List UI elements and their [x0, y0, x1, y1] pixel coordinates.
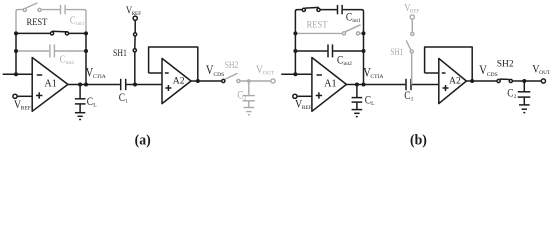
- wire: left feedback vertical gray top part: [16, 10, 23, 34]
- wire: A2 inverting input stub: [149, 72, 162, 74]
- svg-text:CDS: CDS: [213, 72, 224, 78]
- switch SH2 (open, gray side): [222, 73, 240, 82]
- node: SH1 bottom junction dot: [133, 83, 137, 87]
- ground (under CL): [75, 113, 85, 120]
- wire: left feedback vertical (black part): [15, 33, 17, 74]
- capacitor Cint1 (gray): [41, 5, 86, 34]
- svg-text:REF: REF: [410, 8, 420, 14]
- node: C2 tap dot (b): [522, 79, 526, 83]
- node: Cint2 right dot: [84, 49, 88, 53]
- svg-text:SH1: SH1: [113, 47, 127, 58]
- label VREF (top, over SH1): [126, 5, 141, 17]
- ground (under C2, gray): [244, 108, 255, 115]
- label SH2 (black) (b): [497, 60, 514, 70]
- wire: VCTIA vertical (black): [85, 33, 87, 84]
- op-amp A1 (b): [312, 58, 347, 112]
- caption (b): [410, 132, 427, 149]
- node: Cint2 left dot: [14, 49, 18, 53]
- label C1 (b): [404, 90, 413, 102]
- node: Cint2 right dot (b): [362, 49, 366, 53]
- switch SH2 (closed, black) (b): [497, 79, 541, 83]
- label VOUT (b): [532, 63, 550, 76]
- node: A2 output dot: [196, 79, 200, 83]
- node: REST branch right dot (b): [362, 31, 366, 35]
- wire: input stub to A1 inverting input (b): [281, 73, 312, 75]
- node: A1 input junction dot (b): [293, 72, 297, 76]
- svg-text:REST: REST: [27, 17, 48, 28]
- svg-text:1: 1: [411, 97, 414, 103]
- node: REST branch right dot: [84, 31, 88, 35]
- capacitor C1 (b): [406, 79, 411, 90]
- capacitor C1: [121, 79, 126, 90]
- wire: C1 to A2 + input (b): [412, 84, 439, 86]
- label Cint1 (black) (b): [346, 12, 361, 24]
- svg-text:2: 2: [514, 94, 517, 100]
- node: A2 output dot (b): [470, 79, 474, 83]
- wire: left feedback vertical (b): [295, 10, 302, 75]
- switch SH1 (closed, black): [133, 20, 137, 84]
- wire: A2 inverting input stub (b): [425, 72, 439, 74]
- switch REST (closed, black): [16, 31, 86, 35]
- label VCTIA: [86, 67, 106, 80]
- op-amp A1: [32, 58, 68, 112]
- label CL: [87, 96, 97, 108]
- svg-text:A2: A2: [173, 75, 185, 86]
- label REST (gray) (b): [307, 19, 328, 30]
- node: CL tap dot: [78, 83, 82, 87]
- terminal VREF at A1 + input (b): [293, 94, 312, 98]
- label C2 (gray): [237, 90, 246, 102]
- label SH2 (gray): [225, 59, 239, 70]
- node: A1 input junction dot: [14, 72, 18, 76]
- svg-text:2: 2: [244, 96, 247, 102]
- label SH1 (gray) (b): [390, 46, 403, 57]
- wire: A1 output to C1: [68, 84, 120, 86]
- svg-text:REF: REF: [21, 106, 31, 112]
- label VCDS: [206, 64, 224, 78]
- svg-text:SH2: SH2: [225, 59, 239, 70]
- svg-text:int2: int2: [66, 60, 75, 66]
- terminal VREF (top, gray) (b): [410, 15, 414, 19]
- capacitor C2 (b): [518, 81, 531, 105]
- op-amp A2 (b): [439, 58, 467, 103]
- svg-text:A2: A2: [449, 75, 461, 86]
- svg-text:int2: int2: [343, 61, 352, 67]
- label VREF (A1 + input) (b): [295, 98, 312, 111]
- svg-text:1: 1: [125, 99, 128, 105]
- svg-text:C: C: [70, 16, 76, 27]
- label VCTIA (b): [363, 67, 383, 80]
- svg-text:C: C: [60, 55, 66, 66]
- svg-text:OUT: OUT: [263, 71, 275, 77]
- label SH1: [113, 47, 127, 58]
- switch: top feedback branch switch (open, gray): [23, 3, 41, 12]
- svg-text:int1: int1: [76, 21, 85, 27]
- label CL (b): [365, 95, 375, 107]
- switch SH1 (open, gray) (b): [406, 19, 414, 84]
- svg-text:REST: REST: [307, 19, 328, 30]
- wire: A2 feedback loop (b): [425, 47, 473, 81]
- label C2 (b): [507, 88, 516, 100]
- capacitor CL: [75, 85, 86, 113]
- label REST: [27, 17, 48, 28]
- capacitor Cint1 (black) (b): [320, 5, 364, 14]
- node: Cint2 left dot (b): [293, 49, 297, 53]
- wire: SH2 to VOUT (gray): [240, 80, 271, 82]
- terminal VOUT (gray): [271, 79, 275, 83]
- wire: input stub to A1 inverting input: [3, 73, 33, 75]
- terminal VOUT (b): [541, 79, 545, 83]
- label C1: [119, 92, 128, 104]
- wire: A2 output to SH2: [191, 80, 222, 82]
- terminal VREF (top): [133, 16, 137, 20]
- capacitor CL (b): [352, 85, 363, 110]
- node: REST branch left dot: [14, 31, 18, 35]
- svg-text:CTIA: CTIA: [370, 74, 383, 80]
- ground (under C2) (b): [519, 105, 530, 113]
- svg-text:CDS: CDS: [487, 72, 498, 78]
- label VOUT (gray): [256, 63, 275, 76]
- label Cint2 (black) (b): [337, 55, 352, 67]
- wire: A1 output to C1 (b): [346, 84, 405, 86]
- wire: A2 feedback loop: [149, 47, 198, 81]
- terminal VREF at A1 + input: [13, 94, 32, 98]
- wire: VCTIA vertical (b): [363, 11, 365, 84]
- label Cint2 (gray): [60, 55, 75, 66]
- svg-text:CTIA: CTIA: [93, 74, 106, 80]
- node: VCTIA junction dot (b): [362, 83, 366, 87]
- ground (under CL) (b): [352, 110, 363, 117]
- svg-text:REF: REF: [302, 105, 312, 111]
- label Cint1 (gray): [70, 16, 85, 27]
- caption (a): [135, 132, 151, 149]
- svg-text:SH1: SH1: [390, 46, 403, 57]
- svg-text:(a): (a): [135, 132, 151, 149]
- svg-text:SH2: SH2: [497, 60, 514, 70]
- svg-text:A1: A1: [324, 79, 336, 90]
- node: CL tap dot (b): [355, 83, 359, 87]
- svg-text:OUT: OUT: [539, 70, 550, 76]
- node: C2 tap dot (gray): [247, 79, 251, 83]
- op-amp A2: [162, 58, 191, 103]
- svg-text:(b): (b): [410, 132, 427, 149]
- svg-text:C: C: [346, 12, 352, 24]
- node: REST branch left dot (b): [293, 31, 297, 35]
- svg-text:A1: A1: [44, 79, 56, 90]
- svg-text:int1: int1: [352, 18, 361, 24]
- wire: C1 to A2 + input: [126, 84, 162, 86]
- switch REST (open, gray) (b): [295, 25, 363, 35]
- switch: top feedback branch switch (closed, black) (b): [302, 7, 320, 11]
- node: VCTIA junction dot: [84, 83, 88, 87]
- capacitor Cint2 (black) (b): [295, 44, 363, 57]
- capacitor C2 (gray): [243, 81, 255, 108]
- wire: A2 output to SH2 (b): [466, 80, 497, 82]
- label VREF (top, gray) (b): [404, 2, 419, 14]
- capacitor Cint2 (gray): [16, 44, 86, 57]
- label VCDS (b): [479, 64, 497, 78]
- label VREF (A1 + input): [14, 98, 31, 111]
